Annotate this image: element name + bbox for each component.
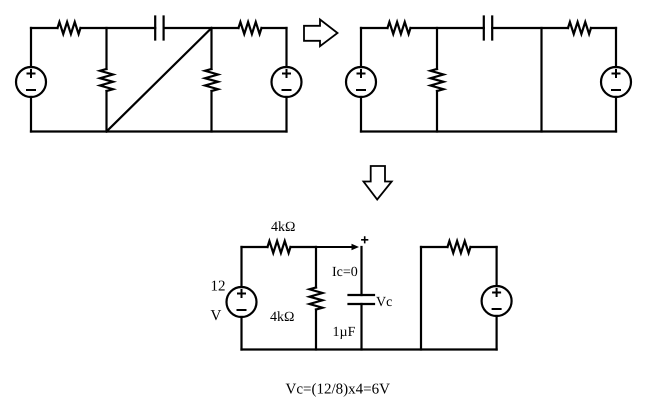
- capacitor C 1uF: [349, 247, 375, 350]
- voltage source top-left V2: [272, 67, 302, 97]
- arrow right transform: [304, 20, 338, 47]
- resistor top-left R-mid1: [100, 69, 113, 91]
- arrow down transform: [364, 166, 392, 200]
- wire bottom circuit left rail: [240, 247, 242, 350]
- resistor top-left R-top2: [239, 22, 262, 34]
- label 12: [211, 279, 226, 295]
- wire node2 vertical top-left: [210, 28, 212, 132]
- wire right loop left rail: [420, 247, 422, 350]
- label formula Vc=(12/8)x4=6V: [286, 382, 391, 398]
- wire top-right circuit left rail: [360, 28, 362, 132]
- wire top-left circuit top rail: [31, 27, 287, 29]
- resistor top-right R-mid: [431, 69, 444, 91]
- voltage source top-left V1: [16, 67, 46, 97]
- voltage source top-right V1: [346, 67, 376, 97]
- wire node2 vertical top-right: [540, 28, 542, 132]
- resistor top-left R-top1: [58, 22, 81, 34]
- svg-text:1µF: 1µF: [333, 325, 356, 340]
- label plus sign Vc: [362, 237, 368, 243]
- svg-text:Vc: Vc: [376, 295, 392, 310]
- svg-text:12: 12: [211, 279, 226, 295]
- wire right loop top rail: [421, 246, 497, 248]
- label 4kOhm shunt: [270, 310, 294, 325]
- svg-text:4kΩ: 4kΩ: [271, 220, 295, 235]
- label V: [211, 308, 222, 324]
- resistor right loop R: [448, 241, 471, 253]
- resistor top-right R-top2: [568, 22, 591, 34]
- resistor R 4k shunt: [310, 288, 323, 310]
- voltage source top-right V2: [601, 67, 631, 97]
- wire node vertical bottom: [315, 247, 317, 350]
- label 1uF: [333, 325, 356, 340]
- wire top-right circuit bottom rail: [361, 130, 616, 132]
- wire bottom circuit top rail: [242, 246, 317, 248]
- wire node1 vertical top-right: [436, 28, 438, 132]
- resistor R 4k top: [268, 241, 291, 253]
- capacitor top-left C1: [155, 17, 163, 40]
- wire right loop right rail: [496, 247, 498, 350]
- capacitor top-right C1: [484, 17, 492, 40]
- label Vc: [376, 295, 392, 310]
- svg-text:4kΩ: 4kΩ: [270, 310, 294, 325]
- wire top-left circuit left rail: [30, 28, 32, 132]
- wire top-left circuit bottom rail: [31, 130, 287, 132]
- wire Ic arrow: [316, 244, 359, 251]
- resistor top-left R-mid2: [205, 69, 218, 91]
- wire bottom circuit bottom rail: [242, 348, 497, 350]
- label Ic=0: [332, 265, 358, 280]
- resistor top-right R-top1: [388, 22, 411, 34]
- label 4kOhm top: [271, 220, 295, 235]
- voltage source 12V: [227, 287, 257, 317]
- wire node1 vertical top-left: [105, 28, 107, 132]
- svg-text:Vc=(12/8)x4=6V: Vc=(12/8)x4=6V: [286, 382, 391, 398]
- wire diagonal short top-left: [107, 28, 212, 132]
- svg-text:V: V: [211, 308, 222, 324]
- wire top-right circuit top rail: [361, 27, 616, 29]
- wire top-left circuit right rail: [285, 28, 287, 132]
- svg-text:Ic=0: Ic=0: [332, 265, 358, 280]
- voltage source right loop V: [482, 286, 512, 316]
- wire top-right circuit right rail: [615, 28, 617, 132]
